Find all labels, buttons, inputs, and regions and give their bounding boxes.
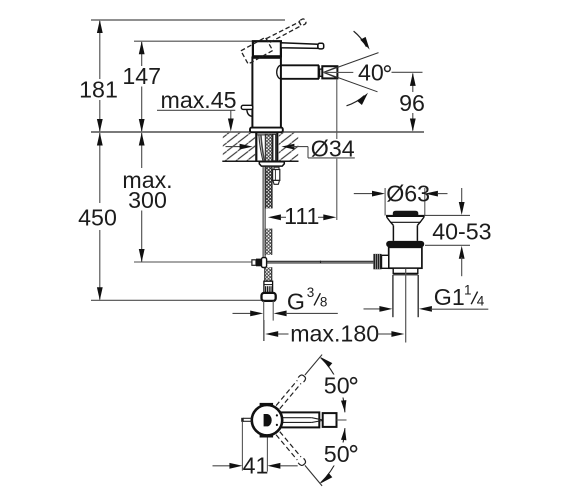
faucet body (front view): [252, 58, 281, 129]
pop-up waste: Ø63 dimension: [354, 193, 373, 195]
40deg pointer line: [324, 71, 354, 73]
svg-text:96: 96: [399, 90, 425, 116]
svg-text:G1: G1: [434, 284, 465, 310]
svg-text:8: 8: [320, 295, 328, 310]
G3/8 connection nut: [262, 293, 276, 301]
waste tailpipe: [392, 275, 394, 317]
waste centerline: [405, 269, 407, 343]
96 top reference line: [392, 71, 423, 73]
svg-text:max.180: max.180: [290, 321, 379, 347]
shank gray bar under base: [257, 133, 276, 135]
braided hose segment below deck: [265, 166, 272, 208]
wire deck counter-top line y=132: [91, 131, 424, 133]
dimension 181 vertical line: [99, 21, 101, 131]
top view: pop-up knob rod: [243, 417, 252, 419]
braided hose segment 2: [265, 229, 272, 255]
svg-text:111: 111: [284, 203, 319, 229]
waste collar: [393, 268, 418, 273]
waste side port: [382, 255, 389, 268]
locknut under deck: [259, 162, 284, 166]
40deg lower ray: [324, 72, 378, 91]
braided hose below coupling: [265, 267, 272, 281]
top view: flat tabs: [260, 403, 274, 406]
svg-text:41: 41: [243, 452, 269, 478]
waste flange funnel sides: [387, 217, 394, 225]
svg-text:50: 50: [324, 373, 350, 399]
top view: faucet body circle: [252, 405, 282, 435]
dimension 40-53: [425, 214, 470, 216]
40deg lower arc arrow: [347, 96, 365, 106]
bent washer curves in hole: [259, 135, 263, 161]
G1 1/4 callout arrows: [364, 308, 382, 310]
svg-text:max.45: max.45: [161, 87, 237, 113]
second hose stub cut short: [274, 167, 279, 169]
dimension 147 vertical line: [141, 42, 143, 131]
top view: lower dashed swivel spout (+50deg): [275, 431, 325, 488]
svg-text:300: 300: [128, 187, 167, 213]
40deg upper ray: [324, 53, 379, 73]
label 50 deg upper (with white backing): [322, 375, 361, 398]
top view: aerator tip: [323, 413, 337, 427]
waste flange rim: [386, 215, 425, 217]
svg-text:40-53: 40-53: [432, 219, 491, 245]
spout (horizontal cylinder): [277, 65, 282, 79]
dimension Ø34 arrows at deck hole: [226, 146, 243, 148]
waste rubber seal O-ring: [386, 241, 424, 247]
top view: lever hole (black D): [264, 414, 272, 426]
aerator cone lines: [324, 67, 337, 72]
faucet base plate on deck: [250, 128, 283, 133]
dimension 450 vertical line: [99, 133, 101, 300]
svg-text:4: 4: [477, 293, 485, 308]
waste flange bottom edge line: [390, 221, 421, 223]
braided supply hose through deck: [265, 134, 272, 209]
waste neck: [392, 225, 394, 241]
deck hatch left: [223, 133, 255, 161]
svg-text:450: 450: [78, 204, 117, 230]
hose crimp sleeve: [264, 281, 273, 293]
50deg upper arc: [321, 358, 345, 413]
waste push dome cap: [393, 211, 419, 215]
label Ø34 with underline: [308, 157, 355, 159]
svg-text:Ø63: Ø63: [386, 180, 430, 206]
faucet head cartridge housing: [253, 41, 281, 56]
knurled rod nut (dark): [373, 254, 381, 269]
pop-up vertical rod: [262, 166, 264, 258]
svg-text:G: G: [287, 289, 305, 315]
G3/8 callout arrows: [233, 312, 252, 314]
deck slab bottom line: [222, 160, 298, 162]
wire max.300 bottom reference line y=262: [134, 261, 252, 263]
svg-text:147: 147: [122, 63, 161, 89]
extent line below aerator (x=336.8): [336, 79, 338, 139]
svg-text:181: 181: [79, 76, 118, 102]
horizontal pop-up rod to waste: [267, 260, 374, 262]
deck hole left edge: [255, 133, 257, 161]
aerator tip rectangle: [322, 66, 337, 78]
label G 3/8 with underline: [286, 312, 338, 314]
lever + head raised position (dashed): [241, 17, 310, 65]
pop-up rod coupling block: [252, 260, 256, 266]
svg-text:3: 3: [307, 285, 315, 300]
lever handle (horizontal position): [281, 43, 318, 49]
dimension max.300 vertical line: [141, 133, 143, 262]
svg-text:40: 40: [358, 59, 384, 85]
wire 450 bottom reference line y=300.3: [91, 299, 262, 301]
dimension 41: [241, 422, 243, 471]
G3/8 thread stub lines: [263, 301, 265, 341]
dimension max.180: [263, 320, 265, 341]
wire 147 reference line (head top level y=41.2): [134, 40, 267, 42]
pop-up rod knob on body left: [241, 105, 253, 109]
top view: upper dashed swivel spout (-50deg): [275, 352, 325, 409]
Ø63 extent lines: [384, 188, 386, 216]
top view: spout tube: [281, 412, 320, 427]
deck hole right edge: [276, 133, 278, 161]
top view: screw dots: [276, 414, 278, 416]
40deg upper arc arrow: [354, 31, 367, 47]
svg-text:1: 1: [464, 283, 472, 298]
spout ball joint neck: [320, 69, 323, 76]
faucet head bottom joint band: [252, 56, 281, 59]
wire top reference line (lever top level y=20): [91, 19, 285, 21]
waste body: [389, 247, 422, 268]
svg-text:Ø34: Ø34: [311, 136, 355, 162]
50deg lower arc: [321, 428, 345, 483]
threaded shank right bar: [273, 134, 276, 161]
dimension 111 horizontal: [268, 214, 281, 220]
dimension 96 vertical: [412, 74, 414, 131]
label 50 deg lower (with white backing): [322, 443, 361, 466]
deck hatch right: [279, 133, 298, 161]
top view: centerline right: [337, 419, 347, 421]
label G1 1/4 with underline: [431, 308, 489, 310]
svg-text:50: 50: [324, 441, 350, 467]
